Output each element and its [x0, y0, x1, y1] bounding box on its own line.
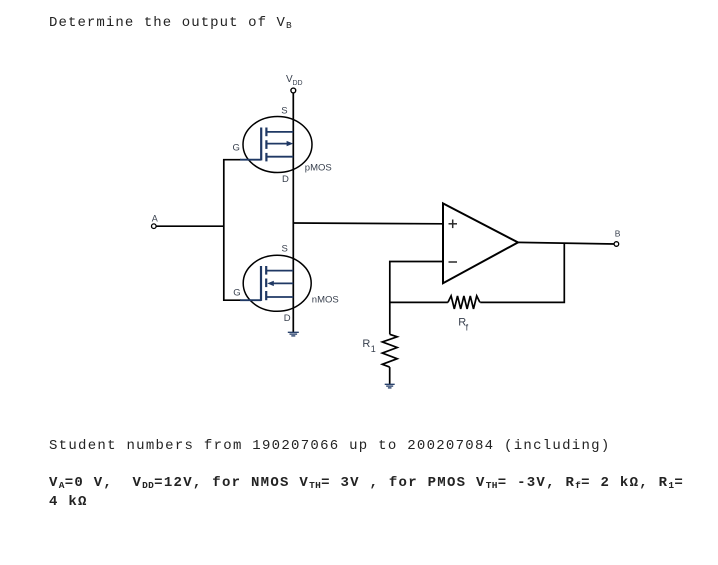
- svg-text:A: A: [152, 214, 158, 224]
- svg-text:nMOS: nMOS: [312, 295, 339, 306]
- wire: op-amp output to terminal B: [518, 242, 614, 244]
- transistor Q1 pMOS: gate bar: [260, 128, 262, 161]
- label + (non-inverting): [449, 220, 458, 229]
- op-amp U1 triangle: [443, 203, 518, 283]
- transistor Q2 nMOS: channel dashes: [265, 266, 267, 275]
- wire: input from node A to gate bus: [156, 225, 224, 227]
- terminal VDD: [291, 88, 296, 93]
- svg-text:D: D: [284, 313, 291, 324]
- ground (below nMOS drain): [288, 332, 299, 336]
- transistor Q2 nMOS: bulk stub with arrow toward gate: [273, 282, 293, 284]
- transistor Q1 pMOS: source stub: [266, 131, 293, 133]
- transistor Q2 nMOS: body ellipse: [243, 255, 311, 311]
- ground (below R1): [385, 384, 395, 388]
- student numbers text: [49, 438, 611, 454]
- wire: Rf to inverting node: [390, 301, 448, 303]
- wire: R1 to ground: [389, 367, 391, 384]
- svg-text:pMOS: pMOS: [305, 163, 332, 174]
- wire: inverting input to feedback node: [390, 262, 443, 335]
- svg-text:G: G: [233, 143, 240, 154]
- svg-text:B: B: [615, 229, 621, 239]
- transistor Q2 nMOS: drain stub: [266, 296, 293, 298]
- svg-text:f: f: [466, 323, 469, 333]
- conditions text (bold): [49, 474, 684, 512]
- transistor Q1 pMOS: bulk stub with arrow to drain rail: [266, 143, 287, 145]
- terminal A: [152, 224, 157, 229]
- transistor Q1 pMOS: channel dashes: [265, 128, 267, 137]
- wire: gate bus from pMOS gate to nMOS gate: [224, 160, 241, 301]
- wire: drain node to op-amp non-inverting input: [293, 222, 443, 225]
- wire: feedback from output down and left to Rf: [480, 244, 564, 303]
- title text: [49, 15, 292, 31]
- terminal B: [614, 242, 619, 247]
- resistor R1: [382, 334, 397, 367]
- transistor Q1 pMOS: body ellipse: [243, 117, 312, 173]
- transistor Q2 nMOS: gate bar: [260, 266, 262, 301]
- svg-text:D: D: [282, 174, 289, 185]
- transistor Q2 nMOS: source stub: [266, 270, 293, 272]
- wire: VDD rail / drain rail (pMOS S to nMOS D): [292, 93, 294, 333]
- svg-text:S: S: [281, 105, 287, 116]
- label - (inverting): [449, 261, 458, 263]
- resistor Rf: [448, 296, 480, 309]
- svg-text:S: S: [282, 244, 288, 255]
- svg-text:G: G: [233, 288, 240, 299]
- transistor Q2 nMOS: gate lead: [240, 299, 261, 301]
- svg-text:R: R: [362, 338, 370, 350]
- svg-text:DD: DD: [293, 80, 303, 87]
- transistor Q1 pMOS: gate lead: [240, 159, 261, 161]
- svg-text:1: 1: [371, 344, 376, 354]
- transistor Q1 pMOS: drain stub: [266, 156, 293, 158]
